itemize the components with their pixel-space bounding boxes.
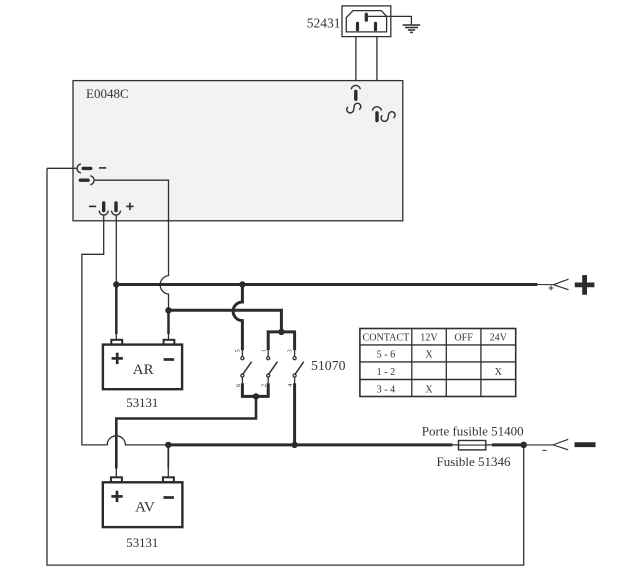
node: switch 3 / minus line junction: [291, 442, 297, 448]
label minus (output 1): [99, 167, 106, 169]
pin line (bottom left): [356, 23, 359, 29]
wire: IEC neutral pin to charger: [376, 37, 378, 107]
wire: AV minus node down to AV minus terminal: [167, 445, 169, 469]
charger box E0048C: [73, 81, 403, 221]
AV minus terminal tab: [163, 477, 174, 482]
label minus (bottom output): [89, 205, 96, 207]
AR minus terminal tab: [164, 340, 175, 345]
AR battery body: [103, 345, 182, 390]
node: switch bottom junction: [253, 393, 259, 399]
svg-text:X: X: [425, 349, 433, 360]
connector pair: box bottom output plus (pin + cup): [112, 203, 121, 215]
svg-text:24V: 24V: [490, 333, 508, 344]
bold minus output symbol: [575, 442, 596, 447]
node: AR minus junction: [165, 307, 171, 313]
wire: outer sense loop (left, bottom, right): [47, 168, 524, 565]
svg-text:3 - 4: 3 - 4: [377, 384, 396, 395]
svg-text:1: 1: [260, 349, 267, 352]
svg-text:1 - 2: 1 - 2: [377, 367, 396, 378]
switch S1 (contacts 5-6): [235, 349, 252, 387]
battery AR: [103, 340, 182, 389]
wire: box minus output down, jog left, down to AV minus node (hop over AV+ wire): [82, 215, 168, 445]
switch S3 (contacts 3-4): [287, 349, 304, 387]
AR plus sign: [112, 353, 123, 364]
wire: earth pin to ground: [368, 16, 412, 24]
svg-text:OFF: OFF: [454, 333, 473, 344]
wire: output 1 left to outer loop: [47, 167, 77, 169]
svg-text:E0048C: E0048C: [86, 86, 129, 101]
AC input connector N (arc, pin, sine): [372, 107, 395, 122]
IEC inlet connector 52431: [342, 6, 391, 37]
ground (earth) symbol: [403, 25, 421, 32]
svg-text:12V: 12V: [420, 333, 438, 344]
node: bus / AR plus junction: [113, 281, 119, 287]
wire: minus line from AV node to fuse: [168, 443, 452, 446]
wire: minus output lead: [524, 444, 553, 446]
AV minus sign: [163, 496, 174, 499]
wire: thin through fuse: [452, 444, 492, 446]
switch S2 (contacts 1-2): [260, 349, 277, 387]
AV battery body: [103, 482, 183, 527]
svg-text:AR: AR: [133, 362, 154, 378]
connector pair: box left output 2 (pin + arc): [80, 176, 94, 185]
svg-text:4: 4: [287, 383, 294, 387]
wire: switch 1+2 bottoms joined: [242, 383, 268, 396]
node: bus / switch feed junction: [239, 281, 245, 287]
wire: switch junction to AV plus terminal: [116, 396, 256, 468]
AR plus terminal tab: [111, 340, 122, 345]
AV plus sign: [111, 491, 122, 502]
svg-text:3: 3: [287, 349, 294, 352]
lever S1: [243, 362, 252, 374]
svg-text:51070: 51070: [311, 358, 346, 373]
wire: plus output lead: [537, 284, 553, 286]
connector: plus output chevron: [554, 279, 569, 290]
fuse 51346 body: [459, 441, 486, 450]
tiny plus mark: [549, 286, 554, 291]
AC input connector L (arc, pin, sine): [347, 85, 361, 112]
wire: AR minus node to switch feed corner: [169, 310, 282, 332]
svg-text:5 - 6: 5 - 6: [377, 349, 396, 360]
bold plus output symbol: [575, 275, 595, 295]
svg-text:5: 5: [235, 349, 242, 352]
wire: output 2 right and down to AR minus node (with hop over bus): [95, 180, 169, 310]
wire: box plus output down to bus: [115, 215, 117, 284]
svg-text:X: X: [425, 384, 433, 395]
pin neutral (bottom right): [374, 23, 377, 29]
svg-text:Porte fusible 51400: Porte fusible 51400: [422, 424, 524, 439]
lever S2: [269, 362, 278, 374]
svg-text:2: 2: [261, 384, 268, 387]
svg-text:6: 6: [235, 383, 242, 387]
svg-text:AV: AV: [135, 500, 155, 516]
wire: fuse to output node: [492, 443, 524, 446]
wire: bus to AR plus terminal: [115, 285, 118, 335]
connector pair: box left output 1 (arc + pin): [77, 164, 91, 173]
wire: AR minus terminal up to node: [167, 310, 170, 334]
connector pair: box bottom output minus (pin + cup): [99, 203, 108, 215]
svg-text:X: X: [495, 367, 503, 378]
wire: main plus bus: [115, 283, 538, 286]
AR minus sign: [164, 358, 175, 361]
node: AV minus junction: [165, 442, 171, 448]
pin earth (top center): [365, 14, 368, 20]
wire: switch 3 bottom down to minus line: [293, 383, 296, 445]
node: minus output / sense loop junction: [520, 442, 527, 449]
lever S3: [295, 362, 304, 374]
battery AV: [103, 477, 183, 527]
wire: U feed to switch 2 and 3 tops: [268, 332, 294, 350]
contact table 51070: [360, 329, 516, 397]
label plus (bottom output): [126, 203, 133, 210]
svg-text:CONTACT: CONTACT: [362, 333, 409, 344]
AV plus terminal tab: [111, 477, 122, 482]
svg-text:Fusible 51346: Fusible 51346: [436, 454, 511, 469]
svg-text:53131: 53131: [126, 536, 158, 550]
wire: bus junction down to switch 1 top (hop over AR minus wire): [233, 285, 242, 351]
svg-text:53131: 53131: [126, 396, 158, 410]
connector: minus output chevron: [553, 439, 568, 450]
tiny minus mark: [543, 449, 547, 451]
svg-text:52431: 52431: [307, 16, 341, 31]
node: switch top feed junction: [278, 329, 284, 335]
wire: IEC line pin to charger: [355, 37, 357, 85]
